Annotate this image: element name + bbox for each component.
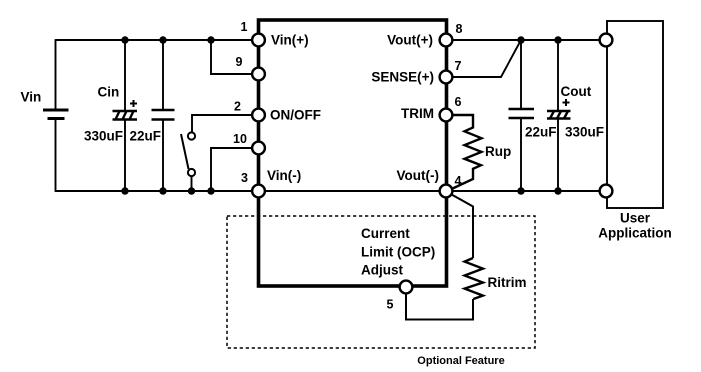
label Rup: [485, 144, 511, 159]
pin label TRIM: [401, 106, 434, 121]
svg-text:330uF: 330uF: [565, 125, 604, 140]
pin label Vout(-): [397, 168, 439, 183]
switch S1: [181, 132, 195, 176]
pin number 6: [455, 95, 462, 109]
svg-text:Adjust: Adjust: [361, 263, 404, 278]
pin 2 ON/OFF: [252, 109, 265, 122]
terminal bottom user application: [600, 185, 613, 198]
battery Vin: [43, 110, 69, 119]
wire pin4 to Ritrim: [448, 193, 473, 259]
pin 4 Vout(-): [440, 185, 453, 198]
svg-text:8: 8: [456, 22, 463, 36]
pin number 7: [455, 59, 462, 73]
pin number 1: [241, 20, 248, 34]
svg-text:22uF: 22uF: [130, 129, 162, 144]
value 330uF input: [84, 129, 123, 144]
value 22uF input: [130, 129, 162, 144]
node dot pin10 branch bottom: [207, 187, 214, 194]
svg-text:Ritrim: Ritrim: [488, 275, 527, 290]
svg-text:SENSE(+): SENSE(+): [371, 70, 434, 85]
node dot Cin top: [121, 36, 128, 43]
wire on/off branch: [192, 115, 258, 132]
svg-text:Vout(-): Vout(-): [397, 168, 439, 183]
capacitor 22uF input: [152, 40, 175, 191]
capacitor Cin 330uF electrolytic: [113, 40, 138, 191]
pin label Vin(-): [267, 168, 301, 183]
svg-text:330uF: 330uF: [84, 129, 123, 144]
wire sense diagonal: [446, 40, 521, 77]
label Cout: [561, 84, 592, 99]
node dot switch bottom: [188, 187, 195, 194]
value 330uF output: [565, 125, 604, 140]
value 22uF output: [525, 125, 557, 140]
wire source left vertical: [55, 39, 57, 192]
pin 3 Vin(-): [252, 185, 265, 198]
node dot Cin bottom: [121, 187, 128, 194]
svg-text:ON/OFF: ON/OFF: [270, 108, 321, 123]
wire input top bus y=40: [56, 39, 259, 41]
label Current Limit (OCP) Adjust: [361, 226, 435, 278]
svg-text:4: 4: [455, 174, 462, 188]
svg-text:5: 5: [387, 298, 394, 312]
pin 9: [252, 68, 265, 81]
node dot 22uF bottom: [159, 187, 166, 194]
svg-text:Application: Application: [598, 226, 672, 241]
svg-text:7: 7: [455, 59, 462, 73]
pin label Vin(+): [271, 33, 309, 48]
node dot pin9 branch top: [207, 36, 214, 43]
svg-text:Current: Current: [361, 226, 410, 241]
wire pin10 branch: [211, 148, 258, 191]
svg-text:Vin: Vin: [21, 90, 42, 105]
capacitor Cout 330uF electrolytic: [547, 40, 571, 191]
module body DC/DC converter: [259, 20, 447, 286]
pin number 8: [456, 22, 463, 36]
pin number 5: [387, 298, 394, 312]
wire Ritrim to pin5: [406, 287, 473, 320]
pin label ON/OFF: [270, 108, 321, 123]
svg-text:TRIM: TRIM: [401, 106, 434, 121]
svg-text:User: User: [620, 211, 651, 226]
wire pin9 branch: [211, 40, 258, 74]
capacitor 22uF output: [509, 40, 535, 191]
svg-text:Optional Feature: Optional Feature: [417, 355, 504, 367]
node dot Cout bottom: [554, 187, 561, 194]
svg-text:Vout(+): Vout(+): [387, 33, 433, 48]
wire switch to bottom bus: [191, 176, 193, 191]
terminal top user application: [600, 34, 613, 47]
svg-text:9: 9: [236, 55, 243, 69]
user application box: [607, 21, 663, 208]
svg-text:10: 10: [233, 132, 247, 146]
wire output top bus y=40: [446, 39, 606, 41]
label Ritrim: [488, 275, 527, 290]
pin number 10: [233, 132, 247, 146]
pin 10: [252, 142, 265, 155]
node dot Cout top: [554, 36, 561, 43]
label Cin: [98, 85, 120, 100]
svg-text:6: 6: [455, 95, 462, 109]
pin number 2: [234, 100, 241, 114]
svg-text:Vin(-): Vin(-): [267, 168, 301, 183]
resistor Rup: [446, 115, 482, 189]
wire input/return bottom bus y=191: [56, 190, 607, 192]
pin 7 SENSE(+): [440, 71, 453, 84]
svg-text:2: 2: [234, 100, 241, 114]
pin label SENSE(+): [371, 70, 434, 85]
pin 1 Vin(+): [252, 34, 265, 47]
node dot 22uF output top: [517, 36, 524, 43]
resistor Ritrim: [465, 258, 483, 299]
pin number 9: [236, 55, 243, 69]
svg-text:Limit (OCP): Limit (OCP): [361, 244, 435, 259]
label Vin: [21, 90, 42, 105]
optional feature dashed box: [227, 216, 535, 348]
pin number 4: [455, 174, 462, 188]
svg-text:22uF: 22uF: [525, 125, 557, 140]
pin label Vout(+): [387, 33, 433, 48]
svg-text:Rup: Rup: [485, 144, 511, 159]
svg-text:Cout: Cout: [561, 84, 592, 99]
node dot 22uF top: [159, 36, 166, 43]
node dot 22uF output bottom: [517, 187, 524, 194]
svg-text:3: 3: [241, 171, 248, 185]
svg-text:Cin: Cin: [98, 85, 120, 100]
svg-text:1: 1: [241, 20, 248, 34]
pin 8 Vout(+): [440, 34, 453, 47]
pin 5: [400, 281, 413, 294]
label User Application: [598, 211, 672, 241]
label Optional Feature: [417, 355, 504, 367]
pin 6 TRIM: [440, 109, 453, 122]
pin number 3: [241, 171, 248, 185]
svg-text:Vin(+): Vin(+): [271, 33, 309, 48]
